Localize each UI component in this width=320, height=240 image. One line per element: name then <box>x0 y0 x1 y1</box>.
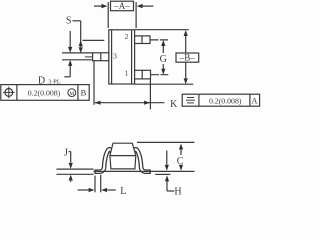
svg-text:3 PL: 3 PL <box>48 78 60 85</box>
svg-text:1: 1 <box>125 68 129 77</box>
svg-text:K: K <box>170 99 178 110</box>
svg-text:C: C <box>177 156 184 167</box>
svg-text:M: M <box>69 91 74 97</box>
svg-text:S: S <box>66 16 72 27</box>
svg-text:–B–: –B– <box>179 53 196 63</box>
svg-text:J: J <box>64 148 68 159</box>
svg-text:L: L <box>120 186 126 197</box>
svg-text:3: 3 <box>113 51 117 60</box>
svg-text:2: 2 <box>125 32 129 41</box>
svg-text:–A–: –A– <box>113 1 130 11</box>
svg-text:0.2(0.008): 0.2(0.008) <box>209 96 242 105</box>
svg-text:H: H <box>174 187 181 198</box>
svg-text:B: B <box>81 88 87 98</box>
svg-text:G: G <box>160 54 167 65</box>
svg-text:D: D <box>38 75 45 86</box>
svg-text:A: A <box>251 96 258 106</box>
svg-text:0.2(0.008): 0.2(0.008) <box>28 88 61 97</box>
